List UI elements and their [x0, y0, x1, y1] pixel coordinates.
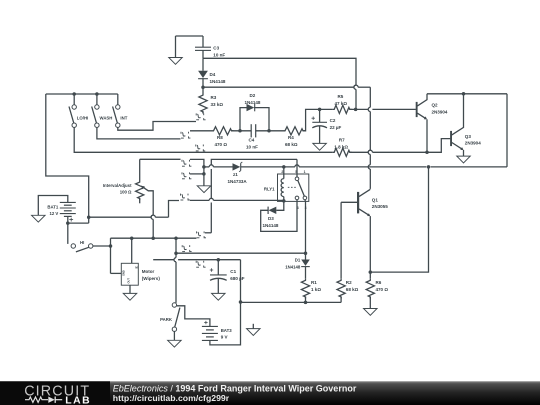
svg-text:1N4148: 1N4148	[210, 79, 226, 84]
svg-text:4: 4	[297, 206, 299, 210]
svg-text:2N3055: 2N3055	[372, 204, 388, 209]
svg-text:R7: R7	[339, 138, 345, 143]
svg-text:D2: D2	[250, 93, 256, 98]
svg-text:z1: z1	[233, 172, 238, 177]
svg-text:9 V: 9 V	[221, 335, 228, 340]
svg-text:22 µF: 22 µF	[330, 125, 342, 130]
svg-text:2N3904: 2N3904	[432, 109, 448, 114]
svg-text:1.8 kΩ: 1.8 kΩ	[334, 144, 348, 149]
svg-text:Q2: Q2	[432, 103, 439, 108]
svg-text:R2: R2	[346, 280, 352, 285]
svg-text:GND: GND	[121, 270, 125, 276]
svg-text:(Wipers): (Wipers)	[142, 276, 161, 281]
svg-text:1N4148: 1N4148	[263, 223, 279, 228]
svg-text:D3: D3	[268, 216, 274, 221]
svg-text:WASH: WASH	[100, 115, 113, 120]
svg-text:680 µF: 680 µF	[230, 276, 244, 281]
svg-text:C4: C4	[249, 138, 255, 143]
svg-text:2: 2	[281, 170, 283, 174]
svg-text:R6: R6	[376, 280, 382, 285]
svg-text:Motor: Motor	[142, 269, 155, 274]
svg-text:3: 3	[305, 206, 307, 210]
svg-text:EbElectronics / 1994 Ford Rang: EbElectronics / 1994 Ford Ranger Interva…	[113, 383, 357, 393]
svg-text:2N3904: 2N3904	[465, 141, 481, 146]
svg-text:IntervalAdjust: IntervalAdjust	[103, 183, 132, 188]
svg-text:HI: HI	[80, 240, 84, 245]
svg-text:1N4148: 1N4148	[285, 264, 301, 269]
svg-text:C1: C1	[230, 269, 236, 274]
svg-text:1 kΩ: 1 kΩ	[311, 287, 321, 292]
svg-text:33 kΩ: 33 kΩ	[211, 102, 224, 107]
svg-text:BAT1: BAT1	[47, 204, 59, 209]
svg-text:470 Ω: 470 Ω	[376, 287, 389, 292]
svg-text:BAT3: BAT3	[221, 328, 233, 333]
svg-text:68 kΩ: 68 kΩ	[346, 287, 359, 292]
svg-text:1N4733A: 1N4733A	[228, 179, 248, 184]
svg-text:Q3: Q3	[465, 134, 472, 139]
svg-text:R5: R5	[338, 94, 344, 99]
svg-text:1N4148: 1N4148	[245, 100, 261, 105]
svg-text:R3: R3	[211, 95, 217, 100]
svg-text:47 kΩ: 47 kΩ	[335, 101, 348, 106]
svg-text:5: 5	[295, 170, 297, 174]
svg-text:12 V: 12 V	[49, 211, 58, 216]
svg-text:R1: R1	[311, 280, 317, 285]
svg-text:INT: INT	[120, 115, 127, 120]
svg-text:100 Ω: 100 Ω	[120, 189, 132, 194]
svg-text:D1: D1	[295, 258, 301, 263]
svg-text:C2: C2	[330, 118, 336, 123]
svg-text:LO/HI: LO/HI	[77, 115, 88, 120]
svg-text:R4: R4	[288, 135, 294, 140]
svg-text:LAB: LAB	[65, 395, 91, 405]
svg-text:10 nF: 10 nF	[213, 52, 225, 57]
svg-text:C3: C3	[213, 46, 219, 51]
svg-text:470 Ω: 470 Ω	[215, 142, 228, 147]
svg-text:D4: D4	[210, 72, 216, 77]
svg-text:OUT: OUT	[126, 278, 130, 284]
svg-text:Q1: Q1	[372, 197, 379, 202]
svg-text:1: 1	[304, 170, 306, 174]
svg-text:10 nF: 10 nF	[246, 144, 258, 149]
svg-text:PARK: PARK	[160, 317, 173, 322]
svg-text:http://circuitlab.com/cfg299r: http://circuitlab.com/cfg299r	[113, 393, 230, 403]
svg-text:68 kΩ: 68 kΩ	[285, 142, 298, 147]
svg-text:R8: R8	[217, 135, 223, 140]
svg-text:RLY1: RLY1	[264, 186, 275, 191]
